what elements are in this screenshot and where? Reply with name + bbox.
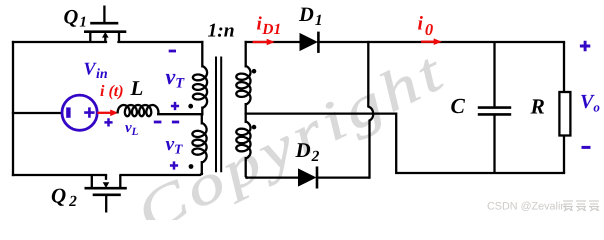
wire lower primary stubs [201,114,203,174]
winding secondary upper [236,66,250,105]
winding primary lower [192,123,206,163]
wire D1 cathode to output top rail [318,41,564,43]
svg-text:i (t): i (t) [100,83,124,100]
current arrow i(t) [97,110,118,117]
polarity dot upper primary [188,104,193,109]
svg-text:R: R [530,94,545,118]
wire lower secondary stubs [246,114,247,178]
polarity plus lower primary [170,161,178,169]
inductor L [118,105,159,116]
svg-text:C: C [451,94,466,118]
current arrow i_0 [421,38,442,45]
current arrow i_D1 [253,39,275,46]
polarity dot lower primary [189,164,194,169]
svg-text:CSDN @Zevalin: CSDN @Zevalin [487,201,566,213]
watermark CJK glyphs [563,201,573,211]
output plus [580,41,590,51]
wire Q1 drain to primary top [119,41,203,43]
wire Q2 to lower primary [121,174,202,176]
wire top-left (input top) [13,41,106,43]
wire left rail [12,42,14,175]
winding secondary lower [236,122,250,159]
wire D2 cathode to riser [317,176,368,178]
label v_L minus [154,121,162,124]
diode D1 [300,32,318,53]
source Vin plus [84,107,94,117]
polarity minus upper primary [169,50,176,53]
wire L coil to primary center tap [158,113,202,115]
source Vin minus bar [66,107,70,117]
svg-text:1:n: 1:n [208,21,235,42]
svg-text:L: L [130,76,144,100]
wire center tap to output return [246,114,564,173]
transformer core [216,57,221,173]
wire riser D2-to-top-rail with hop over center tap [368,42,373,178]
transistor Q2 [85,175,127,213]
capacitor C [478,42,511,173]
polarity plus upper primary [171,102,179,110]
polarity dot secondary lower [252,125,257,130]
wire bottom-left (input bottom) [13,174,106,176]
wire lower secondary to D2 anode [247,176,299,178]
transistor Q1 [84,6,126,43]
wire upper primary stubs [201,42,203,114]
wire middle input row [13,112,62,114]
output minus [582,146,591,149]
polarity minus lower primary [172,121,179,124]
wire upper secondary stubs [245,42,247,114]
winding primary upper [193,66,207,108]
source Vin circle [62,95,97,130]
polarity dot secondary upper [252,69,257,74]
diode D2 [299,167,318,189]
wire secondary top rail to D1 anode [246,41,300,43]
label v_L plus [104,118,112,126]
resistor R [559,42,570,173]
